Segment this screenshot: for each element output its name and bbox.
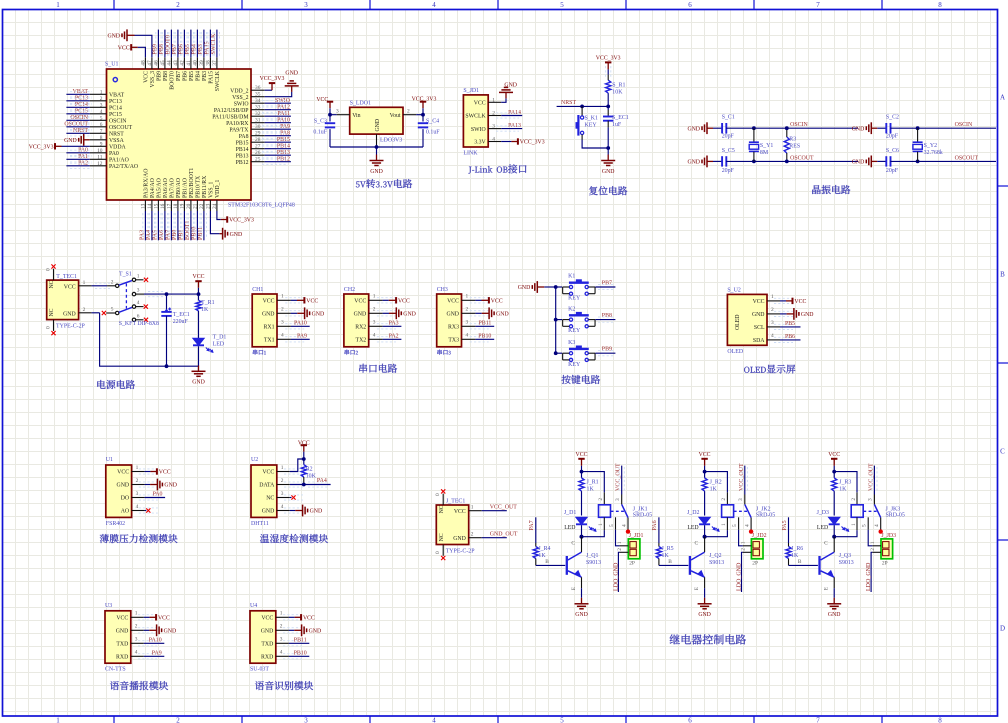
svg-text:4: 4: [136, 504, 139, 510]
svg-text:1: 1: [280, 611, 283, 617]
svg-text:2: 2: [870, 548, 876, 551]
svg-text:R2: R2: [306, 467, 313, 473]
svg-text:3: 3: [336, 109, 339, 115]
svg-text:C: C: [694, 541, 698, 547]
svg-text:PB11: PB11: [479, 320, 492, 326]
svg-text:J_D2: J_D2: [687, 510, 699, 516]
svg-text:J_JD1: J_JD1: [629, 533, 644, 539]
svg-text:2: 2: [136, 478, 139, 484]
svg-text:3: 3: [100, 102, 103, 108]
svg-text:VCC: VCC: [794, 299, 806, 305]
svg-text:CH1: CH1: [252, 287, 263, 293]
svg-text:4: 4: [280, 650, 283, 656]
svg-text:7: 7: [816, 1, 820, 9]
svg-text:LED: LED: [213, 341, 225, 347]
svg-text:C: C: [824, 541, 828, 547]
svg-text:2: 2: [83, 307, 86, 313]
svg-text:B: B: [1000, 271, 1005, 279]
svg-text:PB3: PB3: [202, 71, 208, 81]
svg-text:VCC: VCC: [263, 299, 275, 305]
svg-text:PB0/AO: PB0/AO: [176, 178, 182, 198]
svg-text:U1: U1: [106, 457, 113, 463]
svg-text:24: 24: [212, 203, 218, 209]
svg-text:1K: 1K: [839, 486, 847, 492]
svg-text:PA9/TX: PA9/TX: [229, 127, 249, 133]
svg-text:K1: K1: [568, 274, 575, 280]
svg-text:5: 5: [732, 524, 738, 527]
svg-text:10: 10: [97, 148, 103, 154]
svg-text:3: 3: [136, 491, 139, 497]
svg-text:S_Y2: S_Y2: [924, 143, 937, 149]
svg-text:PC13: PC13: [109, 99, 122, 105]
svg-text:U3: U3: [105, 603, 112, 609]
svg-text:4: 4: [745, 524, 751, 527]
svg-text:GND: GND: [370, 169, 383, 175]
svg-text:GND: GND: [752, 312, 765, 318]
svg-text:J_Q2: J_Q2: [709, 553, 721, 559]
svg-text:6: 6: [688, 1, 692, 9]
svg-text:S_R1: S_R1: [612, 82, 625, 88]
svg-text:32: 32: [255, 111, 261, 117]
svg-text:PA0: PA0: [109, 151, 119, 157]
svg-text:LDO_GND: LDO_GND: [866, 562, 872, 591]
svg-text:PB6: PB6: [785, 334, 795, 340]
svg-text:GND: GND: [309, 629, 322, 635]
svg-text:VSSA: VSSA: [109, 138, 125, 144]
svg-text:VCC: VCC: [576, 452, 588, 458]
svg-text:3: 3: [492, 124, 495, 130]
svg-text:GND: GND: [63, 311, 76, 317]
svg-text:PB10/TX: PB10/TX: [196, 175, 202, 198]
svg-text:VCC_3V3: VCC_3V3: [229, 218, 254, 224]
svg-text:11: 11: [97, 154, 102, 160]
svg-text:4: 4: [100, 109, 103, 115]
svg-text:PB5: PB5: [189, 71, 195, 81]
svg-text:14: 14: [147, 203, 153, 209]
svg-text:6: 6: [688, 717, 692, 723]
svg-text:VCC: VCC: [474, 101, 486, 107]
svg-text:OSCIN: OSCIN: [790, 122, 808, 128]
svg-text:NRST: NRST: [109, 132, 124, 138]
svg-text:PB7: PB7: [602, 281, 612, 287]
svg-text:2: 2: [851, 498, 857, 501]
svg-text:GND: GND: [518, 285, 531, 291]
svg-text:OLED: OLED: [727, 349, 743, 355]
svg-text:20pF: 20pF: [722, 134, 735, 140]
svg-text:PC15: PC15: [109, 112, 122, 118]
svg-text:GND: GND: [852, 160, 865, 166]
svg-text:2: 2: [740, 548, 746, 551]
svg-text:PA10: PA10: [149, 637, 162, 643]
svg-text:1: 1: [56, 717, 60, 723]
svg-text:1: 1: [721, 523, 727, 526]
svg-text:PC14: PC14: [109, 106, 122, 112]
svg-text:LED: LED: [817, 525, 828, 531]
svg-text:GND: GND: [453, 536, 466, 542]
svg-text:NC: NC: [49, 280, 55, 288]
svg-text:J_R3: J_R3: [839, 479, 851, 485]
svg-text:S9013: S9013: [709, 560, 724, 566]
svg-text:GND: GND: [107, 34, 120, 40]
svg-text:C: C: [571, 541, 575, 547]
svg-text:31: 31: [255, 118, 261, 124]
svg-text:48: 48: [140, 60, 146, 66]
svg-text:S_C3: S_C3: [314, 119, 327, 125]
svg-text:1K: 1K: [538, 553, 546, 559]
svg-text:2: 2: [598, 498, 604, 501]
svg-text:A: A: [1000, 94, 1005, 102]
svg-text:PA3: PA3: [389, 320, 399, 326]
svg-text:PB6: PB6: [183, 71, 189, 81]
svg-text:2: 2: [176, 717, 180, 723]
svg-text:2P: 2P: [629, 561, 635, 567]
svg-text:PB5: PB5: [785, 321, 795, 327]
svg-text:CH3: CH3: [437, 287, 448, 293]
svg-text:Vin: Vin: [352, 113, 360, 119]
svg-text:LED: LED: [687, 525, 698, 531]
svg-text:T_D1: T_D1: [213, 334, 227, 340]
svg-text:OSCIN: OSCIN: [955, 122, 973, 128]
svg-text:GND: GND: [354, 312, 367, 318]
svg-text:4: 4: [137, 300, 140, 306]
svg-text:3: 3: [615, 498, 621, 501]
svg-text:BOOT0: BOOT0: [170, 71, 176, 90]
svg-text:PB13: PB13: [277, 150, 290, 156]
svg-text:0: 0: [46, 268, 52, 271]
svg-text:KEY: KEY: [568, 362, 581, 368]
svg-text:VCC: VCC: [159, 470, 171, 476]
svg-text:0: 0: [435, 493, 441, 496]
svg-text:GND: GND: [496, 312, 509, 318]
svg-text:0.1uF: 0.1uF: [313, 130, 327, 136]
svg-text:OLED: OLED: [735, 315, 741, 330]
svg-text:VSS_2: VSS_2: [232, 95, 249, 101]
svg-text:2: 2: [407, 109, 410, 115]
svg-text:GND: GND: [446, 312, 459, 318]
svg-text:PB11/RX: PB11/RX: [202, 175, 208, 198]
svg-text:S_JD1: S_JD1: [463, 88, 479, 94]
svg-text:VCC: VCC: [193, 274, 205, 280]
svg-text:VSS_3: VSS_3: [150, 71, 156, 88]
svg-text:S_LDO1: S_LDO1: [350, 100, 371, 106]
svg-text:NC: NC: [439, 505, 445, 513]
svg-text:26: 26: [255, 150, 261, 156]
svg-text:GND: GND: [116, 629, 129, 635]
svg-text:J_JK2: J_JK2: [756, 506, 771, 512]
svg-text:33: 33: [255, 105, 261, 111]
svg-text:VCC: VCC: [158, 616, 170, 622]
svg-text:19: 19: [179, 203, 185, 209]
svg-text:PA4/AO: PA4/AO: [150, 178, 156, 198]
svg-text:2: 2: [111, 279, 114, 285]
svg-text:GND: GND: [801, 312, 814, 318]
svg-text:39: 39: [199, 60, 205, 66]
svg-text:28: 28: [255, 137, 261, 143]
svg-text:3: 3: [281, 491, 284, 497]
svg-text:PB15: PB15: [277, 137, 290, 143]
svg-text:8: 8: [938, 1, 942, 9]
svg-text:S_C5: S_C5: [722, 148, 735, 154]
svg-text:3: 3: [738, 498, 744, 501]
svg-text:CN-TTS: CN-TTS: [105, 667, 126, 673]
svg-text:VCC: VCC: [454, 509, 466, 515]
svg-text:GND: GND: [698, 612, 711, 618]
svg-text:PB7: PB7: [176, 71, 182, 81]
svg-text:1uF: 1uF: [612, 122, 622, 128]
svg-text:K3: K3: [568, 340, 575, 346]
svg-text:45: 45: [160, 60, 166, 66]
svg-text:SWCLK: SWCLK: [465, 114, 486, 120]
svg-text:3: 3: [771, 320, 774, 326]
svg-text:RXD: RXD: [116, 655, 128, 661]
svg-text:OSCOUT: OSCOUT: [790, 155, 814, 161]
svg-text:J_JD2: J_JD2: [752, 533, 767, 539]
svg-text:0.1uF: 0.1uF: [426, 130, 440, 136]
svg-text:U4: U4: [250, 603, 257, 609]
svg-text:U2: U2: [251, 457, 258, 463]
svg-text:40: 40: [192, 60, 198, 66]
svg-text:PB13: PB13: [236, 153, 249, 159]
svg-text:20pF: 20pF: [722, 168, 735, 174]
svg-text:2P: 2P: [882, 561, 888, 567]
svg-text:4: 4: [281, 504, 284, 510]
svg-text:PA0: PA0: [153, 492, 163, 498]
svg-text:4: 4: [874, 524, 880, 527]
svg-text:GND: GND: [602, 169, 615, 175]
svg-text:2: 2: [466, 307, 469, 313]
svg-text:VCC: VCC: [306, 299, 318, 305]
svg-text:8M: 8M: [760, 150, 769, 156]
svg-text:4: 4: [432, 1, 436, 9]
svg-text:VCC_3V3: VCC_3V3: [260, 76, 285, 82]
svg-text:J_JK1: J_JK1: [633, 506, 648, 512]
svg-text:T_S1: T_S1: [119, 271, 132, 277]
svg-text:2: 2: [281, 307, 284, 313]
svg-text:3: 3: [304, 717, 308, 723]
svg-text:PC13: PC13: [75, 96, 88, 102]
svg-text:5: 5: [609, 524, 615, 527]
svg-text:VCC_OUT: VCC_OUT: [490, 504, 518, 510]
svg-text:VCC: VCC: [753, 299, 765, 305]
svg-text:4: 4: [466, 333, 469, 339]
svg-text:PA7/AO: PA7/AO: [170, 178, 176, 198]
svg-text:PB15: PB15: [236, 140, 249, 146]
svg-text:VCC: VCC: [447, 299, 459, 305]
svg-text:SRD-05: SRD-05: [633, 512, 652, 518]
svg-text:J_R5: J_R5: [662, 546, 674, 552]
svg-text:GND: GND: [164, 483, 177, 489]
svg-text:30: 30: [255, 124, 261, 130]
svg-text:4: 4: [621, 524, 627, 527]
svg-text:GND: GND: [285, 71, 298, 77]
svg-text:PA1/AO: PA1/AO: [109, 158, 129, 164]
svg-text:4: 4: [373, 333, 376, 339]
svg-text:TYPE-C-2P: TYPE-C-2P: [56, 324, 86, 330]
svg-text:VCC: VCC: [354, 299, 366, 305]
svg-text:PA5: PA5: [782, 520, 788, 530]
svg-text:J_Q1: J_Q1: [586, 553, 598, 559]
svg-text:GND: GND: [312, 312, 325, 318]
svg-text:1: 1: [135, 611, 138, 617]
svg-text:B: B: [798, 559, 802, 565]
svg-text:PB10: PB10: [294, 650, 307, 656]
svg-text:10K: 10K: [612, 89, 623, 95]
svg-text:21: 21: [192, 203, 198, 209]
svg-text:PB9: PB9: [602, 347, 612, 353]
svg-text:VCC: VCC: [316, 97, 328, 103]
svg-text:3: 3: [868, 498, 874, 501]
svg-text:SRD-05: SRD-05: [886, 512, 905, 518]
svg-text:PC14: PC14: [75, 102, 88, 108]
svg-text:B: B: [545, 559, 549, 565]
svg-text:3: 3: [135, 637, 138, 643]
svg-text:1: 1: [598, 523, 604, 526]
svg-text:K2: K2: [568, 306, 575, 312]
svg-text:VCC_3V3: VCC_3V3: [520, 140, 545, 146]
svg-text:1K: 1K: [587, 486, 595, 492]
svg-text:2: 2: [771, 307, 774, 313]
svg-text:4: 4: [771, 333, 774, 339]
svg-text:GND: GND: [403, 312, 416, 318]
svg-text:GND: GND: [375, 119, 381, 132]
svg-text:3: 3: [466, 320, 469, 326]
svg-text:7: 7: [100, 128, 103, 134]
svg-text:S_C1: S_C1: [722, 115, 735, 121]
svg-text:PB14: PB14: [236, 147, 249, 153]
svg-text:41: 41: [186, 60, 192, 66]
svg-text:2: 2: [471, 532, 474, 538]
svg-text:2: 2: [281, 478, 284, 484]
svg-text:GND_OUT: GND_OUT: [490, 531, 518, 537]
svg-text:SWCLK: SWCLK: [215, 70, 221, 91]
svg-text:220uF: 220uF: [173, 319, 189, 325]
svg-text:36: 36: [255, 85, 261, 91]
svg-text:4: 4: [432, 717, 436, 723]
svg-text:J_R4: J_R4: [538, 546, 550, 552]
svg-text:SCL: SCL: [754, 325, 765, 331]
svg-text:VDDA: VDDA: [109, 145, 127, 151]
svg-text:NC: NC: [49, 308, 55, 316]
svg-text:J_D3: J_D3: [817, 510, 829, 516]
svg-text:43: 43: [173, 60, 179, 66]
svg-text:3: 3: [280, 637, 283, 643]
svg-text:PA9: PA9: [297, 333, 307, 339]
svg-text:CH2: CH2: [344, 287, 355, 293]
svg-text:PB9: PB9: [157, 71, 163, 81]
svg-text:1: 1: [870, 541, 876, 544]
svg-text:GND: GND: [575, 612, 588, 618]
svg-text:8: 8: [100, 135, 103, 141]
svg-text:S9013: S9013: [586, 560, 601, 566]
svg-text:35: 35: [255, 92, 261, 98]
svg-text:PB11: PB11: [294, 637, 307, 643]
svg-text:GND: GND: [261, 629, 274, 635]
svg-text:GND: GND: [828, 612, 841, 618]
svg-text:S_C4: S_C4: [426, 119, 439, 125]
svg-text:PB12: PB12: [236, 160, 249, 166]
svg-text:T_TEC1: T_TEC1: [56, 274, 77, 280]
svg-text:42: 42: [179, 60, 185, 66]
svg-text:C: C: [1000, 448, 1005, 456]
svg-text:2: 2: [135, 624, 138, 630]
svg-text:5: 5: [100, 115, 103, 121]
svg-text:1: 1: [100, 89, 103, 95]
svg-text:15: 15: [153, 203, 159, 209]
svg-text:PA5/AO: PA5/AO: [157, 178, 163, 198]
svg-text:S_KFT DIP-8X8: S_KFT DIP-8X8: [119, 321, 159, 327]
svg-text:LDO_GND: LDO_GND: [614, 562, 620, 591]
svg-text:GND: GND: [262, 509, 275, 515]
svg-text:PB2/BOOT1: PB2/BOOT1: [189, 168, 195, 198]
svg-text:NC: NC: [439, 533, 445, 541]
svg-text:GND: GND: [310, 509, 323, 515]
svg-text:2: 2: [617, 548, 623, 551]
svg-text:10K: 10K: [306, 474, 317, 480]
svg-text:TXD: TXD: [116, 642, 128, 648]
svg-text:VDD_1: VDD_1: [215, 180, 221, 198]
svg-text:1: 1: [136, 465, 139, 471]
svg-text:PA10/RX: PA10/RX: [226, 121, 249, 127]
svg-text:PB14: PB14: [277, 144, 290, 150]
svg-text:5: 5: [560, 717, 564, 723]
svg-text:0: 0: [435, 551, 441, 554]
svg-text:SWIO: SWIO: [275, 98, 291, 104]
svg-text:3: 3: [304, 1, 308, 9]
svg-text:PA2/TX/AO: PA2/TX/AO: [109, 164, 138, 170]
svg-text:1K: 1K: [710, 486, 718, 492]
svg-text:J_TEC1: J_TEC1: [446, 499, 465, 505]
svg-text:T_R1: T_R1: [201, 300, 214, 306]
svg-text:VBAT: VBAT: [109, 93, 125, 99]
svg-text:AO: AO: [121, 509, 129, 515]
svg-text:1: 1: [137, 273, 140, 279]
svg-text:TX3: TX3: [448, 338, 459, 344]
svg-text:4: 4: [492, 137, 495, 143]
svg-text:6: 6: [100, 122, 103, 128]
svg-text:34: 34: [255, 98, 261, 104]
svg-text:STM32F103C8T6_LQFP48: STM32F103C8T6_LQFP48: [228, 203, 295, 209]
svg-text:LDO3V3: LDO3V3: [380, 138, 402, 144]
svg-text:T_EC1: T_EC1: [173, 312, 190, 318]
svg-text:TYPE-C-2P: TYPE-C-2P: [446, 548, 476, 554]
svg-text:0: 0: [46, 326, 52, 329]
svg-text:4: 4: [135, 650, 138, 656]
svg-text:PA2: PA2: [389, 333, 399, 339]
svg-text:VCC: VCC: [699, 452, 711, 458]
svg-text:1K: 1K: [662, 553, 670, 559]
svg-text:1: 1: [281, 465, 284, 471]
svg-text:VCC: VCC: [144, 71, 150, 83]
svg-text:2: 2: [176, 1, 180, 9]
svg-text:46: 46: [153, 60, 159, 66]
svg-text:B: B: [668, 559, 672, 565]
svg-text:J_Q3: J_Q3: [839, 553, 851, 559]
svg-text:S_K1: S_K1: [585, 115, 598, 121]
svg-text:LINK: LINK: [463, 151, 478, 157]
svg-text:SDA: SDA: [753, 338, 765, 344]
svg-text:PB8: PB8: [163, 71, 169, 81]
svg-text:PB12: PB12: [277, 157, 290, 163]
svg-text:2: 2: [100, 96, 103, 102]
svg-text:VCC: VCC: [118, 46, 130, 52]
svg-text:PB10: PB10: [192, 227, 198, 240]
svg-text:DATA: DATA: [259, 483, 275, 489]
svg-text:PB11: PB11: [198, 227, 204, 240]
svg-text:VCC: VCC: [298, 440, 310, 446]
svg-text:16: 16: [160, 203, 166, 209]
svg-text:J_JK3: J_JK3: [886, 506, 901, 512]
svg-text:PA7: PA7: [529, 520, 535, 530]
